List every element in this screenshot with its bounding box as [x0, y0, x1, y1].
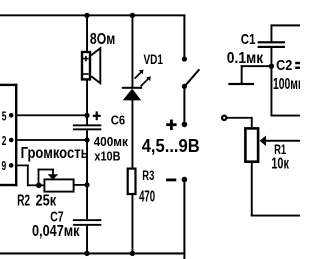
wire: junction to ground	[241, 65, 272, 67]
wire: bottom ground rail	[0, 252, 185, 254]
speaker horn	[91, 48, 100, 83]
wire: vertical bus x=87 C6 to C7	[86, 130, 88, 219]
potentiometer R2 body	[44, 179, 73, 191]
wire: terminal to R1 top	[227, 117, 253, 119]
wire: C1/C2 junction down to C2 bottom rail	[271, 66, 273, 116]
wire: vertical bus x=87 rail to speaker	[86, 15, 88, 52]
wire: top supply rail	[0, 14, 185, 16]
wire: C1 bottom stub	[271, 48, 273, 66]
svg-text:10к: 10к	[271, 154, 289, 171]
svg-text:400мк: 400мк	[94, 134, 129, 149]
LED VD1 triangle	[123, 89, 142, 101]
switch SA1 moving contact dot	[182, 84, 187, 89]
wire: switch branch from top rail	[183, 14, 185, 59]
svg-text:R3: R3	[142, 168, 154, 183]
svg-text:100мк: 100мк	[273, 75, 300, 93]
wire: C7 to bottom rail	[86, 225, 88, 253]
R2 wiper arrowhead	[48, 174, 59, 180]
resistor R3 body	[128, 169, 136, 194]
battery + sign	[166, 120, 176, 130]
pin 2 dot	[9, 138, 14, 143]
ground stub	[241, 65, 243, 84]
svg-text:5: 5	[2, 110, 7, 124]
ground bar	[228, 83, 254, 85]
node: junction dot top rail / speaker branch	[84, 13, 89, 18]
input terminal circle	[222, 116, 226, 120]
wire: speaker to C6	[86, 80, 88, 125]
wire: LED to R3	[132, 99, 134, 168]
svg-text:C6: C6	[111, 113, 126, 128]
wire: R1 top stub	[251, 117, 253, 127]
C6 polarity +	[93, 111, 101, 120]
potentiometer R1 body	[245, 128, 258, 161]
svg-text:R2: R2	[17, 191, 30, 209]
R2 wiper wire	[38, 169, 54, 186]
svg-text:8Ом: 8Ом	[90, 29, 115, 47]
node: dot R2 right lead / bus	[84, 182, 89, 187]
battery + terminal dot	[182, 122, 188, 128]
node: dot C1 / C2 junction	[269, 63, 274, 68]
svg-text:VD1: VD1	[144, 51, 164, 67]
battery - terminal dot	[182, 177, 188, 183]
capacitor C2 plates (clipped at edge)	[295, 62, 300, 69]
wire: pin 2 to C6 bottom	[17, 139, 87, 141]
switch SA1 fixed contact dot	[182, 56, 187, 61]
battery - sign	[166, 179, 176, 182]
svg-text:C2: C2	[276, 57, 292, 73]
svg-text:0.1мк: 0.1мк	[227, 50, 264, 67]
wire: R3 to bottom rail	[132, 195, 134, 254]
node: dot C7 / bottom rail	[84, 251, 89, 256]
wire: VD1 branch rail to LED	[132, 15, 134, 87]
speaker + mark	[83, 56, 89, 62]
LED emission arrow 1	[135, 70, 144, 79]
capacitor C1 plates	[258, 41, 285, 48]
IC U1 (DA1) box, partial at left edge	[0, 84, 17, 187]
wire: R1 bottom to right edge	[251, 163, 300, 217]
wire: C1 top stub	[271, 24, 273, 41]
wire: pin 5 to C6 top	[17, 114, 87, 116]
svg-text:9: 9	[1, 159, 6, 173]
wire: C2 bottom rail	[271, 115, 301, 117]
pin 9 dot	[9, 163, 14, 168]
LED VD1 cathode bar	[122, 87, 142, 89]
svg-text:C1: C1	[241, 31, 256, 48]
svg-text:Громкость: Громкость	[21, 145, 89, 162]
capacitor C7 plates	[73, 219, 101, 226]
svg-text:470: 470	[139, 187, 155, 205]
node: dot pin5/C6 top	[84, 113, 89, 118]
R2 left lead	[39, 184, 45, 186]
node: junction dot top rail / VD1 branch	[130, 13, 135, 18]
speaker - mark	[83, 73, 89, 75]
capacitor C6 plates	[73, 124, 101, 130]
node: dot R3 / bottom rail	[130, 251, 135, 256]
LED emission arrow 2	[141, 76, 151, 86]
R2 right lead	[74, 184, 88, 186]
svg-text:х10В: х10В	[94, 148, 120, 163]
R1 wiper wire	[266, 140, 301, 142]
wire: C2 top rail	[271, 24, 301, 26]
pin 5 dot	[9, 113, 14, 118]
svg-text:2: 2	[2, 134, 7, 148]
R1 wiper arrowhead	[260, 136, 266, 146]
wire: switch to battery +	[183, 86, 185, 124]
svg-text:0,047мк: 0,047мк	[32, 223, 80, 240]
switch SA1 blade	[184, 69, 199, 86]
svg-text:4,5...9В: 4,5...9В	[142, 135, 200, 156]
speaker BA1 body	[82, 52, 90, 79]
node: dot pin2/C6 bottom	[84, 137, 89, 142]
node: dot pin9 / R2 junction	[36, 183, 42, 189]
wire: battery - to bottom rail and below	[183, 180, 185, 259]
wire: pin 9 jog to R2	[17, 165, 40, 187]
